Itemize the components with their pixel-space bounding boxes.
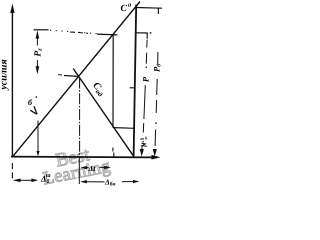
svg-text:Р: Р: [141, 76, 151, 82]
P_b bottom arrow: [153, 149, 157, 157]
dashed segment to K: [58, 74, 62, 76]
central vertical baseline tick: [113, 153, 115, 158]
open chevron arrow to diagonal: [30, 106, 37, 114]
dimension Delta bn: [80, 180, 87, 183]
dot after b': [36, 96, 37, 97]
label rho: [141, 76, 151, 82]
top-right horizontal level line: [136, 7, 162, 10]
solid level segment at junction: [97, 33, 118, 36]
central vertical lower dash: [112, 148, 114, 152]
P_z top tick: [34, 29, 49, 31]
dash-dot dimension line rho: [142, 40, 147, 143]
watermark Best: [54, 144, 92, 171]
y-axis dashed extension below origin: [11, 163, 13, 179]
label C_od: [90, 80, 108, 98]
svg-text:С: С: [121, 4, 128, 14]
main diagonal line C^a: [13, 2, 141, 157]
K vertical below baseline: [78, 158, 80, 184]
right dimension line P_b: [155, 52, 158, 146]
rho bottom arrow: [141, 146, 143, 151]
dimension Delta 0: [13, 179, 21, 183]
tick at top right: [157, 8, 159, 14]
watermark Learning: [41, 157, 112, 190]
P_z dimension lower arrow: [36, 60, 38, 67]
x-axis: [11, 156, 157, 159]
svg-text:Δ0tа: Δ0tа: [40, 173, 51, 185]
x-axis arrowhead: [152, 155, 161, 160]
apex vertical: [134, 5, 137, 157]
dimension Delta t: [80, 166, 87, 169]
horizontal connector y129: [113, 127, 135, 130]
svg-text:Δt: Δt: [88, 164, 97, 173]
line C_od: [73, 69, 134, 157]
vertical at K point: [79, 78, 81, 157]
tick below: [146, 33, 148, 39]
tick on apex vertical: [130, 87, 135, 89]
y-axis arrowhead: [10, 4, 14, 14]
svg-text:усилия: усилия: [0, 59, 10, 90]
vertical boundary x38 with down arrow: [37, 121, 39, 152]
label P_z: [33, 48, 43, 57]
y-axis: [11, 12, 13, 157]
right horizontal level line y34: [136, 32, 148, 34]
dot: [150, 32, 152, 33]
small zigzag mark: [140, 138, 144, 141]
label P_b: [151, 64, 162, 72]
P_z dimension upper arrow: [36, 30, 40, 38]
dashed level line to junction: [50, 30, 102, 34]
central vertical (solid part): [112, 35, 114, 128]
